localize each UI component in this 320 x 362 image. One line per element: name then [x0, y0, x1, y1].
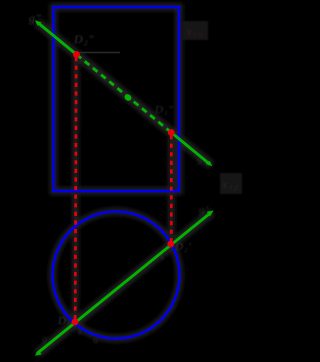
halo under front-view rectangle	[54, 7, 180, 191]
svg-text:x₁ ₂: x₁ ₂	[186, 27, 202, 38]
projection line 2 (red dashed)	[170, 135, 173, 242]
svg-text:D₂″: D₂″	[73, 32, 94, 46]
arrowhead g' lower left	[35, 350, 42, 356]
label x (dark red, upper right)	[182, 21, 208, 40]
piercing point D1' (red dot)	[72, 319, 79, 326]
line g' (top view)	[37, 213, 211, 354]
line g'' visible segment upper left	[37, 22, 77, 55]
halo under projection line 1	[72, 54, 80, 322]
arrowhead g'' upper left	[35, 20, 42, 26]
front-view rectangle (cylinder outline, Aufriss)	[54, 7, 180, 191]
halo under line g''	[37, 22, 212, 166]
arrowhead g'' lower right	[206, 161, 213, 167]
halo under top-view circle	[53, 212, 180, 339]
piercing point D2' (red dot)	[167, 241, 174, 248]
line g'' hidden segment (dashed)	[77, 55, 172, 133]
top-view circle (cylinder outline, Grundriss)	[53, 212, 180, 339]
svg-text:D₁″: D₁″	[154, 104, 174, 116]
arrowhead g' upper right	[207, 210, 214, 216]
label block x12 right middle	[220, 173, 242, 194]
halo under projection line 2	[168, 133, 175, 245]
projection line 1 (red dashed)	[75, 57, 76, 320]
svg-text:x₁₂: x₁₂	[221, 177, 238, 191]
fat dash blob on hidden segment	[123, 93, 132, 102]
svg-text:D₂′: D₂′	[174, 241, 192, 253]
line g'' visible segment lower right	[171, 133, 210, 165]
piercing point D2'' (red dot)	[73, 51, 80, 58]
piercing point D1'' (red dot)	[168, 129, 175, 136]
faint auxiliary tick from upper piercing point	[79, 52, 120, 54]
svg-text:g: g	[42, 334, 48, 345]
halo under line g'	[37, 212, 212, 354]
